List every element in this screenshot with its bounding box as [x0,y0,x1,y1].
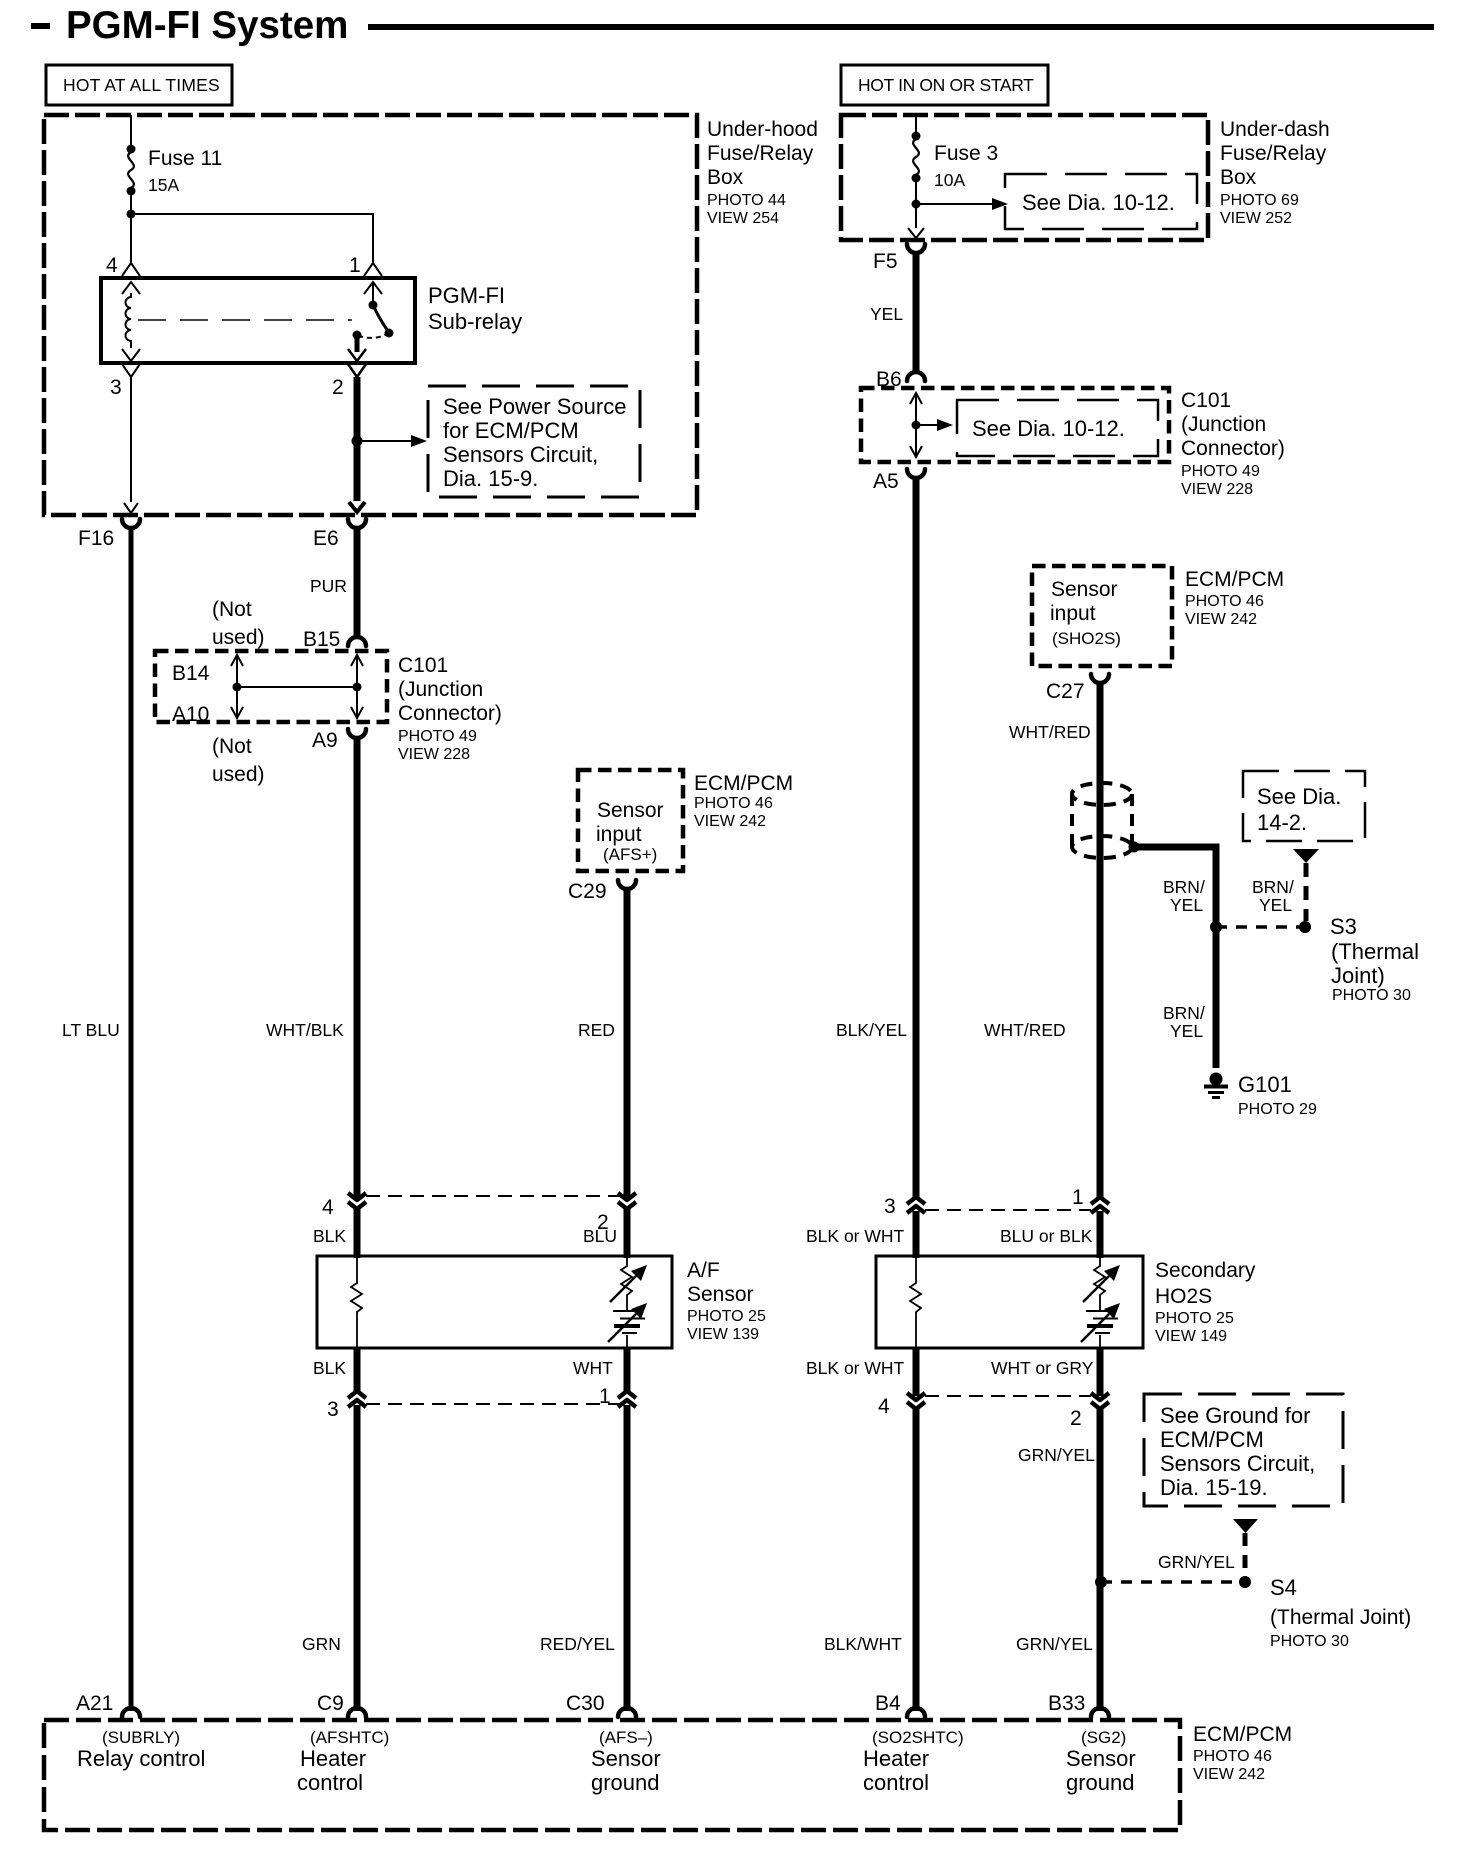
svg-text:YEL: YEL [1170,895,1203,915]
svg-text:C101: C101 [1181,389,1231,412]
arrow to see dia 10-12 (upper) [916,203,992,205]
svg-text:GRN/YEL: GRN/YEL [1016,1634,1093,1654]
svg-text:BRN/: BRN/ [1252,877,1294,897]
A/F sensor variable resistor [621,1258,632,1310]
svg-text:C30: C30 [566,1692,605,1715]
svg-text:(Thermal Joint): (Thermal Joint) [1270,1606,1411,1629]
pin 3 outer caret [122,364,140,377]
svg-text:WHT/RED: WHT/RED [984,1020,1066,1040]
svg-text:control: control [863,1770,929,1795]
svg-text:HO2S: HO2S [1155,1285,1212,1308]
svg-text:PUR: PUR [310,576,347,596]
svg-text:PHOTO 30: PHOTO 30 [1270,1633,1349,1650]
svg-text:Sensor: Sensor [1066,1746,1136,1771]
pin 3 inner caret [122,349,140,361]
svg-text:input: input [1050,602,1096,625]
svg-text:Dia. 15-9.: Dia. 15-9. [443,466,538,491]
wire switch to pin 2 [355,335,360,352]
wire A9 to sensor (WHT/BLK) [354,736,361,1197]
svg-text:YEL: YEL [1170,1021,1203,1041]
node B14 link [233,683,242,692]
fuse F11 [127,145,136,154]
svg-text:B4: B4 [875,1692,901,1715]
svg-text:VIEW 252: VIEW 252 [1220,210,1292,227]
wire F5 to B6 (YEL) [913,251,920,371]
wire C27 to sensor (WHT/RED) [1097,681,1104,1198]
svg-text:2: 2 [1070,1407,1082,1430]
wire C29 to sensor (RED) [624,887,631,1197]
svg-text:GRN/YEL: GRN/YEL [1158,1552,1235,1572]
arrow from see ground note [1233,1519,1258,1533]
svg-text:PHOTO 29: PHOTO 29 [1238,1101,1317,1118]
svg-text:VIEW 139: VIEW 139 [687,1326,759,1343]
svg-text:Relay control: Relay control [77,1746,205,1771]
svg-text:Heater: Heater [300,1746,366,1771]
title rule line [368,24,1434,30]
svg-text:B33: B33 [1048,1692,1085,1715]
svg-text:VIEW 254: VIEW 254 [707,210,779,227]
svg-text:Sensors Circuit,: Sensors Circuit, [1160,1451,1315,1476]
node S4 right [1239,1576,1251,1588]
svg-text:BLK or WHT: BLK or WHT [806,1358,905,1378]
svg-text:B15: B15 [303,628,340,651]
svg-text:PHOTO 25: PHOTO 25 [1155,1310,1234,1327]
under-dash fuse/relay box (dashed) [841,115,1208,240]
svg-text:PHOTO 46: PHOTO 46 [1193,1748,1272,1765]
svg-text:(Junction: (Junction [1181,413,1266,436]
node at cylinder [1129,842,1140,853]
HOT AT ALL TIMES label box [46,65,232,105]
svg-text:PHOTO 49: PHOTO 49 [1181,463,1260,480]
svg-text:Sensor: Sensor [597,799,664,822]
HO2S lower connector dashed link [925,1395,1091,1397]
ECM/PCM sensor input (SHO2S) box [1032,566,1172,666]
svg-text:(SHO2S): (SHO2S) [1052,629,1121,648]
svg-text:control: control [297,1770,363,1795]
svg-text:1: 1 [599,1385,611,1408]
wire into A/F sensor left [354,1207,361,1258]
svg-text:ground: ground [591,1770,660,1795]
svg-text:input: input [596,823,642,846]
svg-text:(Thermal: (Thermal [1331,939,1419,964]
svg-text:WHT: WHT [573,1358,613,1378]
svg-text:C101: C101 [398,654,448,677]
wire junction to relay pin 1 [131,214,373,262]
node S3 left [1210,921,1222,933]
ECM/PCM bottom box (dashed) [44,1720,1180,1830]
svg-text:See Dia. 10-12.: See Dia. 10-12. [972,416,1125,441]
svg-text:Box: Box [707,166,744,189]
svg-text:WHT or GRY: WHT or GRY [991,1358,1094,1378]
svg-text:BLU or BLK: BLU or BLK [1000,1226,1093,1246]
svg-text:HOT IN ON OR START: HOT IN ON OR START [858,75,1034,95]
svg-text:Box: Box [1220,166,1257,189]
wire into HO2S left [913,1211,920,1258]
svg-text:(Junction: (Junction [398,678,483,701]
arrow to see-power-source note [357,440,411,442]
wire out of HO2S left [913,1348,920,1396]
svg-text:3: 3 [884,1195,896,1218]
svg-text:RED: RED [578,1020,615,1040]
HO2S connector row dashed link [925,1209,1091,1211]
see dia 14-2 note box [1243,771,1365,841]
svg-text:used): used) [212,626,265,649]
svg-text:BRN/: BRN/ [1163,877,1205,897]
A/F lower connector dashed link [366,1403,627,1405]
svg-text:PHOTO 49: PHOTO 49 [398,728,477,745]
svg-text:ECM/PCM: ECM/PCM [1193,1723,1292,1746]
pin 2 outer caret [348,364,366,377]
svg-text:(SG2): (SG2) [1081,1728,1126,1747]
svg-text:Under-dash: Under-dash [1220,118,1330,141]
svg-text:A/F: A/F [687,1259,720,1282]
svg-text:F16: F16 [78,527,114,550]
svg-text:2: 2 [332,376,344,399]
svg-text:1: 1 [1072,1186,1084,1209]
A/F connector row dashed link [366,1195,627,1197]
wire into A/F sensor right [624,1207,631,1258]
svg-text:VIEW 242: VIEW 242 [1193,1766,1265,1783]
wire fuse 3 down [915,178,917,228]
A/F sensor box [317,1256,672,1348]
wire from box top to fuse 11 [130,115,132,150]
wire to B4 (BLK/WHT) [913,1407,920,1711]
svg-text:RED/YEL: RED/YEL [540,1634,615,1654]
see dia 10-12 note box (lower) [957,400,1158,456]
svg-text:See Ground for: See Ground for [1160,1403,1310,1428]
arrow to see dia 10-12 (lower) [916,424,938,426]
svg-text:Sensor: Sensor [687,1283,754,1306]
svg-text:See Dia. 10-12.: See Dia. 10-12. [1022,190,1175,215]
svg-text:PHOTO 46: PHOTO 46 [1185,593,1264,610]
wire E6 to B15 (PUR) [354,526,361,638]
svg-text:4: 4 [878,1395,890,1418]
svg-text:PGM-FI System: PGM-FI System [66,4,348,47]
A/F heater resistor [351,1258,362,1347]
svg-text:E6: E6 [313,527,339,550]
svg-text:Heater: Heater [863,1746,929,1771]
dashed wire from arrow to S4 (GRN/YEL) [1243,1533,1248,1576]
svg-text:PHOTO 69: PHOTO 69 [1220,192,1299,209]
A/F sensor cell [613,1310,635,1312]
svg-text:Sensor: Sensor [591,1746,661,1771]
svg-text:Sensors Circuit,: Sensors Circuit, [443,442,598,467]
svg-text:VIEW 242: VIEW 242 [694,813,766,830]
svg-text:C9: C9 [317,1692,344,1715]
S4 thermal joint dashed wire [1101,1580,1245,1584]
svg-text:4: 4 [322,1196,334,1219]
svg-text:ground: ground [1066,1770,1135,1795]
pin 4 inner caret [122,282,140,294]
see ground note box [1144,1394,1343,1506]
svg-text:used): used) [212,763,265,786]
wire pin 3 down [130,377,132,502]
wire to C30 (RED/YEL) [624,1405,631,1711]
wire end arrow at box edge (F5) [908,228,924,238]
svg-text:C27: C27 [1046,680,1085,703]
node on E6 wire [352,436,363,447]
see power source note box [428,386,640,497]
see dia 10-12 note box (upper) [1005,174,1197,229]
relay switch [369,301,378,310]
svg-text:S4: S4 [1270,1575,1297,1600]
svg-text:A5: A5 [873,470,899,493]
svg-text:Secondary: Secondary [1155,1259,1256,1282]
svg-text:BRN/: BRN/ [1163,1003,1205,1023]
svg-text:S3: S3 [1330,914,1357,939]
svg-text:LT BLU: LT BLU [62,1020,120,1040]
fuse F3 [912,132,921,141]
svg-text:VIEW 242: VIEW 242 [1185,611,1257,628]
svg-text:PHOTO 44: PHOTO 44 [707,192,786,209]
svg-text:BLK or WHT: BLK or WHT [806,1226,905,1246]
svg-text:BLK/WHT: BLK/WHT [824,1634,902,1654]
svg-text:Fuse 3: Fuse 3 [934,142,998,165]
wire out of A/F sensor right [624,1348,631,1392]
pin 2 inner caret [348,349,366,361]
svg-text:10A: 10A [934,170,965,190]
svg-text:See Dia.: See Dia. [1257,784,1341,809]
svg-text:PGM-FI: PGM-FI [428,283,505,308]
svg-text:WHT/BLK: WHT/BLK [266,1020,344,1040]
B15/A9 internal link wire [356,656,358,717]
svg-text:F5: F5 [873,250,898,273]
svg-text:(Not: (Not [212,598,252,621]
svg-text:Sub-relay: Sub-relay [428,309,522,334]
S3 thermal joint dashed wire [1216,925,1305,929]
svg-text:ECM/PCM: ECM/PCM [1160,1427,1264,1452]
svg-text:PHOTO 25: PHOTO 25 [687,1308,766,1325]
svg-text:BLK/YEL: BLK/YEL [836,1020,907,1040]
svg-text:BLK: BLK [313,1226,346,1246]
svg-text:(SUBRLY): (SUBRLY) [102,1728,180,1747]
svg-text:See Power Source: See Power Source [443,394,626,419]
svg-text:Dia. 15-19.: Dia. 15-19. [1160,1475,1268,1500]
wire out of HO2S right [1097,1348,1104,1396]
wire F16 to A21 (LT BLU) [129,526,134,1711]
wire end arrow at box edge (E6) [349,502,365,512]
wire to C9 (GRN) [354,1405,361,1711]
HOT IN ON OR START label box [841,65,1048,105]
svg-text:for ECM/PCM: for ECM/PCM [443,418,579,443]
svg-text:(AFSHTC): (AFSHTC) [310,1728,389,1747]
svg-text:15A: 15A [148,175,179,195]
relay dashed link line [138,319,352,321]
secondary HO2S box [876,1256,1143,1348]
pin 1 inner caret [364,282,382,294]
dashed wire from arrow to S3 [1304,863,1309,921]
svg-text:1: 1 [349,254,361,277]
ECM/PCM sensor input (AFS+) box [578,770,683,871]
svg-text:3: 3 [110,376,122,399]
shield cylinder [1072,783,1132,805]
svg-text:ECM/PCM: ECM/PCM [694,772,793,795]
wire A5 to sensor (BLK/YEL) [913,476,920,1198]
arrow from see dia 14-2 [1293,849,1319,863]
node: fuse output junction [127,210,136,219]
node S4 left [1095,1576,1107,1588]
wire to B33 (GRN/YEL) [1097,1407,1104,1711]
node inside C101 right [912,421,921,430]
HO2S sensor cell [1086,1310,1108,1312]
C101 junction connector box (right) [861,388,1169,462]
pin 1 connector arrow [364,263,382,276]
title dash [31,23,50,29]
svg-text:YEL: YEL [870,304,903,324]
svg-text:WHT/RED: WHT/RED [1009,722,1091,742]
pin 4 connector arrow [122,263,140,276]
wire cylinder to S3 branch [1134,847,1216,923]
svg-text:C29: C29 [568,880,607,903]
relay switch pivot wire [372,282,374,305]
svg-text:Under-hood: Under-hood [707,118,818,141]
svg-text:GRN: GRN [302,1634,341,1654]
C101 right internal wire [915,393,917,457]
relay PGM-FI sub-relay box [101,278,415,363]
wire S3 to G101 (BRN/YEL) [1213,927,1220,1068]
svg-text:A21: A21 [76,1692,113,1715]
svg-text:PHOTO 46: PHOTO 46 [694,795,773,812]
relay coil [126,293,132,348]
svg-text:Connector): Connector) [1181,437,1285,460]
svg-text:A9: A9 [312,729,338,752]
svg-text:VIEW 228: VIEW 228 [1181,481,1253,498]
svg-text:4: 4 [106,254,118,277]
node: fuse 3 junction [912,200,921,209]
svg-text:Sensor: Sensor [1051,578,1118,601]
svg-text:G101: G101 [1238,1072,1292,1097]
node S3 right [1299,921,1311,933]
svg-text:B14: B14 [172,662,210,685]
wire fuse to relay pin 4 [130,191,132,262]
svg-text:Joint): Joint) [1331,963,1385,988]
svg-text:(Not: (Not [212,735,252,758]
svg-text:(AFS+): (AFS+) [603,845,657,864]
wire end arrow at box edge (F16) [124,503,138,513]
HO2S heater resistor [910,1258,921,1347]
wire pin 2 down (E6) [354,377,361,501]
svg-text:3: 3 [327,1398,339,1421]
svg-text:HOT AT ALL TIMES: HOT AT ALL TIMES [63,75,220,95]
svg-text:YEL: YEL [1259,895,1292,915]
svg-text:Fuse/Relay: Fuse/Relay [707,142,814,165]
B14/A10 internal link wire [236,656,238,717]
ground G101 [1210,1073,1223,1086]
wire into HO2S right [1097,1211,1104,1258]
wire from box top to fuse 3 [915,115,917,137]
svg-text:Connector): Connector) [398,702,502,725]
svg-text:GRN/YEL: GRN/YEL [1018,1445,1095,1465]
svg-text:Fuse 11: Fuse 11 [148,147,222,170]
svg-text:(SO2SHTC): (SO2SHTC) [872,1728,964,1747]
wire out of A/F sensor left [354,1348,361,1392]
internal jumper wire [237,686,357,688]
svg-text:A10: A10 [172,703,209,726]
svg-text:Fuse/Relay: Fuse/Relay [1220,142,1327,165]
svg-text:BLU: BLU [583,1226,617,1246]
svg-text:BLK: BLK [313,1358,346,1378]
HO2S variable resistor [1094,1258,1105,1310]
svg-text:VIEW 149: VIEW 149 [1155,1328,1227,1345]
svg-text:ECM/PCM: ECM/PCM [1185,568,1284,591]
svg-text:(AFS–): (AFS–) [599,1728,653,1747]
under-hood fuse/relay box (dashed) [44,115,697,515]
svg-text:VIEW 228: VIEW 228 [398,746,470,763]
node B15 link [353,683,362,692]
svg-text:14-2.: 14-2. [1257,810,1307,835]
svg-text:PHOTO 30: PHOTO 30 [1332,987,1411,1004]
C101 junction connector box (left) [155,651,387,722]
